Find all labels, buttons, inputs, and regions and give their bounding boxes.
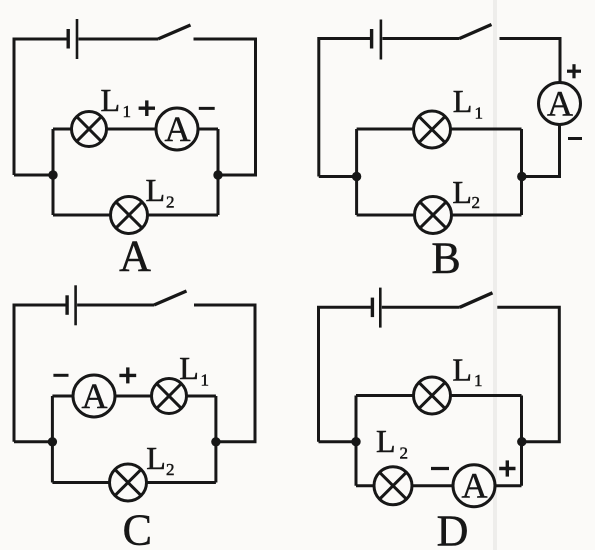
svg-text:A: A — [119, 232, 151, 281]
wire left junction row — [319, 440, 357, 443]
lamp L1 — [414, 377, 451, 414]
lamp L2 — [415, 197, 452, 234]
lamp L2 — [374, 467, 412, 505]
wire top branch left stub — [356, 394, 414, 397]
switch S1 blade — [158, 25, 191, 39]
switch S4 blade — [460, 293, 493, 308]
battery BT4 short plate — [371, 298, 374, 318]
lamp L1 — [414, 111, 451, 148]
svg-text:2: 2 — [400, 443, 409, 462]
wire switch to top-right corner down to junction row — [194, 305, 255, 442]
wire lamp L1 to ammeter — [107, 128, 157, 131]
plus sign of ammeter A1 — [139, 100, 155, 116]
wire top-left to battery — [14, 39, 67, 175]
wire lamp L2 to ammeter — [412, 484, 453, 487]
node right junction dot — [517, 172, 526, 181]
battery BT2 short plate — [370, 29, 373, 49]
wire top-left to battery — [319, 39, 370, 177]
svg-text:C: C — [123, 505, 152, 550]
wire battery to switch — [382, 306, 460, 309]
wire lamp L2 to inner right vertical — [148, 214, 219, 217]
faint scanner streak — [493, 0, 497, 550]
svg-text:L: L — [179, 350, 199, 386]
battery BT2 long plate — [380, 20, 383, 60]
wire battery to switch — [382, 37, 459, 40]
wire left junction row — [319, 175, 357, 178]
svg-text:A: A — [462, 466, 488, 506]
ammeter A3 — [73, 375, 115, 417]
wire inner left vertical — [355, 129, 358, 215]
svg-text:1: 1 — [201, 371, 210, 390]
wire lamp L1 to inner right vertical — [451, 128, 522, 131]
node left junction dot — [48, 170, 57, 179]
plus sign of ammeter A3 — [119, 367, 136, 383]
minus sign of ammeter A4 — [431, 467, 449, 470]
svg-text:L: L — [453, 83, 473, 119]
wire switch to top-right corner down to junction row — [194, 39, 256, 175]
switch S2 blade — [460, 25, 492, 39]
node right junction dot — [517, 437, 526, 446]
wire inner left vertical — [52, 129, 55, 215]
wire lamp L2 to inner right vertical — [147, 481, 216, 484]
svg-text:D: D — [437, 507, 469, 550]
svg-text:L: L — [376, 423, 396, 459]
svg-text:L: L — [146, 172, 166, 208]
battery BT1 short plate — [66, 29, 69, 49]
svg-text:1: 1 — [123, 102, 132, 121]
wire top branch left stub — [53, 128, 72, 131]
plus sign of ammeter A4 — [499, 460, 515, 476]
svg-text:L: L — [452, 174, 472, 210]
svg-text:B: B — [431, 234, 460, 283]
svg-text:L: L — [452, 351, 472, 387]
wire ammeter down to junction row — [522, 125, 560, 177]
wire inner left vertical — [355, 396, 358, 486]
node left junction dot — [48, 437, 57, 446]
svg-text:2: 2 — [166, 193, 175, 212]
battery BT1 long plate — [76, 19, 79, 59]
wire bottom branch left stub — [357, 214, 415, 217]
svg-text:A: A — [547, 84, 573, 124]
svg-text:L: L — [101, 82, 121, 118]
node right junction dot — [211, 437, 220, 446]
battery BT4 long plate — [379, 288, 382, 328]
wire bottom branch left stub — [53, 214, 111, 217]
wire ammeter to inner right vertical — [198, 128, 218, 131]
svg-text:2: 2 — [472, 193, 481, 212]
node right junction dot — [213, 170, 222, 179]
wire top-left to battery — [319, 307, 371, 441]
wire left junction row — [14, 174, 53, 177]
ammeter A4 — [453, 465, 495, 507]
ammeter A1 — [156, 108, 198, 150]
wire lamp L1 to inner right vertical — [451, 394, 522, 397]
wire lamp L2 to inner right vertical — [452, 214, 522, 217]
wire inner left vertical — [51, 396, 54, 483]
wire top-left to battery — [14, 305, 66, 442]
svg-text:A: A — [165, 109, 191, 149]
plus sign of ammeter A2 — [567, 64, 581, 78]
wire inner right vertical — [520, 129, 523, 215]
wire ammeter to lamp L1 — [115, 395, 152, 398]
lamp L2 — [110, 464, 147, 501]
svg-text:1: 1 — [475, 104, 484, 123]
minus sign of ammeter A1 — [199, 107, 215, 110]
lamp L1 — [72, 112, 107, 147]
svg-text:L: L — [146, 440, 166, 476]
wire inner right vertical — [520, 396, 523, 486]
wire switch to top-right corner down to ammeter — [500, 39, 561, 83]
wire inner right vertical — [214, 396, 217, 483]
node left junction dot — [351, 437, 360, 446]
wire top branch left stub — [357, 128, 414, 131]
battery BT3 long plate — [74, 285, 77, 325]
wire inner right vertical — [217, 129, 220, 215]
wire bottom branch left stub — [52, 481, 109, 484]
wire switch to top-right corner down to junction row — [497, 307, 559, 441]
wire ammeter to inner right vertical — [495, 484, 522, 487]
minus sign of ammeter A2 — [568, 137, 582, 140]
node left junction dot — [352, 172, 361, 181]
minus sign of ammeter A3 — [53, 374, 68, 377]
wire top branch left stub — [52, 395, 73, 398]
wire lamp L1 to inner right vertical — [187, 395, 216, 398]
ammeter A2 — [539, 83, 581, 125]
switch S3 blade — [154, 291, 187, 305]
svg-text:1: 1 — [474, 371, 483, 390]
lamp L1 — [152, 379, 187, 414]
battery BT3 short plate — [65, 295, 68, 315]
lamp L2 — [111, 197, 148, 234]
wire battery to switch — [77, 304, 154, 307]
svg-text:2: 2 — [166, 460, 175, 479]
wire bottom branch left stub — [356, 484, 374, 487]
wire battery to switch — [79, 38, 159, 41]
svg-text:A: A — [82, 376, 108, 416]
wire left junction row — [14, 440, 52, 443]
